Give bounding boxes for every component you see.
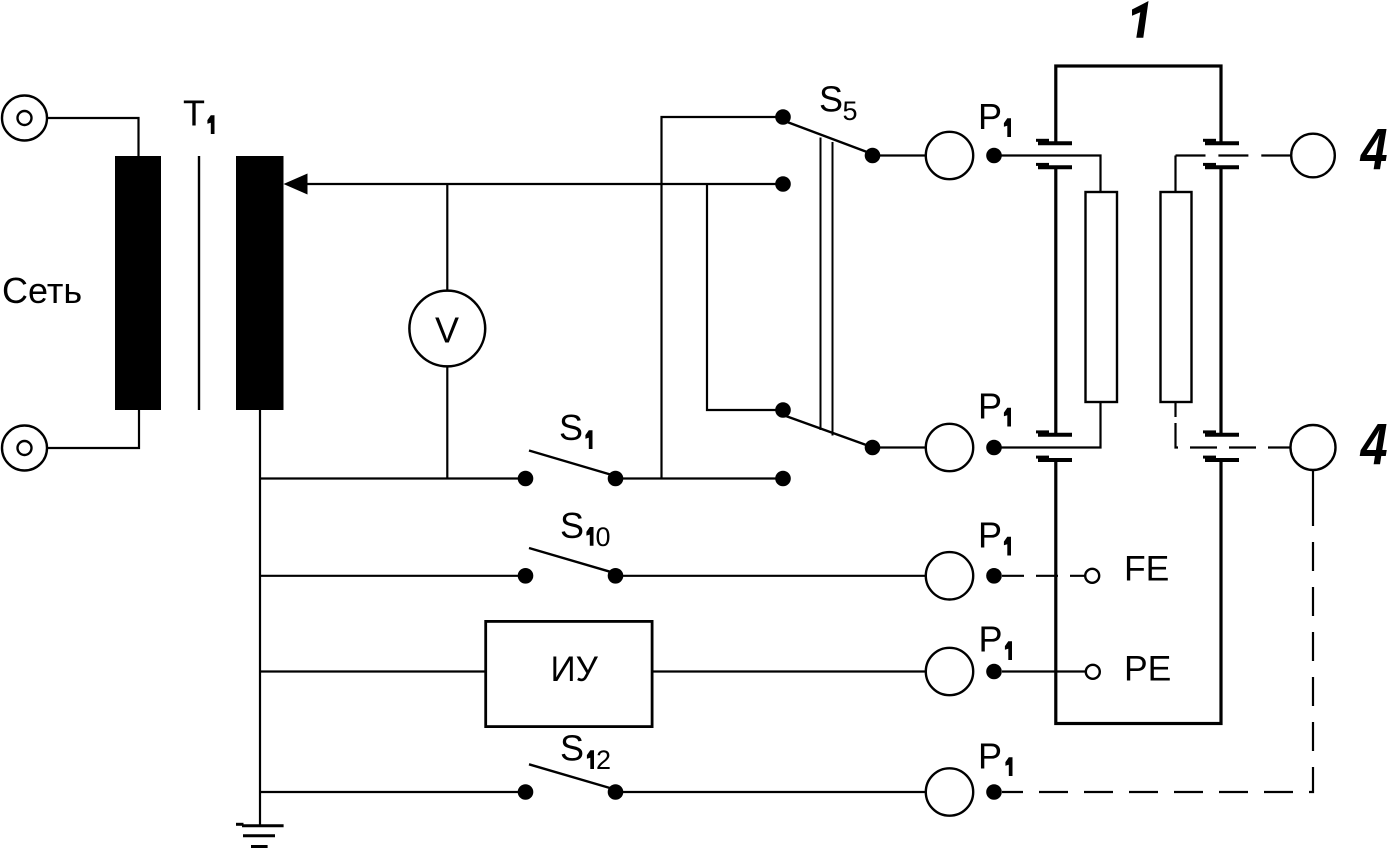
wire bus to S10 <box>260 575 526 577</box>
svg-text:P: P <box>978 386 1002 427</box>
probe P1 row FE <box>926 515 1011 600</box>
svg-text:P: P <box>979 619 1003 660</box>
terminal X1 top-left <box>2 96 47 141</box>
wire IU to probe P1 <box>652 670 926 672</box>
svg-text:T: T <box>183 93 205 134</box>
wire to PE contact <box>1002 670 1086 672</box>
connector plates left row1 <box>1036 140 1072 167</box>
probe P1 row1 <box>926 96 1011 179</box>
dashed wire R right to terminal 4 bottom <box>1176 423 1291 448</box>
transformer T1 secondary winding bar <box>236 156 284 410</box>
terminal 4 bottom <box>1291 413 1388 477</box>
transformer T1 primary winding bar <box>115 156 161 410</box>
node contact row PE <box>986 664 1002 680</box>
svg-text:S: S <box>560 728 584 769</box>
wire bus to IU box <box>260 670 486 672</box>
svg-text:5: 5 <box>843 96 858 126</box>
svg-text:Сеть: Сеть <box>2 270 82 311</box>
wire P1 row1 into load R left <box>994 156 1101 193</box>
wire R right top riser <box>1174 156 1176 193</box>
svg-text:4: 4 <box>1360 413 1388 477</box>
wire X1 to T1 primary top <box>47 118 139 157</box>
wire X2 to T1 primary bottom <box>47 409 139 448</box>
terminal X2 bottom-left <box>2 426 47 471</box>
label S12 <box>560 728 611 776</box>
wire riser arrow line to S5 contact B1 <box>707 184 783 410</box>
label S1 <box>559 407 593 449</box>
connector plates right row1 <box>1203 140 1239 167</box>
svg-text:2: 2 <box>596 745 611 775</box>
wire S5 pole1 to probe P1 <box>873 154 927 156</box>
wire T1 secondary bottom to bus <box>259 409 261 479</box>
transformer T1 core line <box>198 156 200 410</box>
switch S5 pole 2 <box>775 402 880 486</box>
probe P1 row S12 <box>926 735 1013 815</box>
node contact row FE <box>986 568 1002 584</box>
appliance under test box 1 outline <box>1046 66 1231 724</box>
probe P1 row PE <box>926 619 1012 696</box>
wire S10 to probe P1 <box>616 575 927 577</box>
node contact row2 <box>986 440 1002 456</box>
dashed wire terminal 4 to S12 row <box>1002 497 1313 792</box>
terminal FE <box>1085 549 1169 589</box>
svg-text:S: S <box>559 407 583 448</box>
svg-text:0: 0 <box>596 522 611 552</box>
svg-text:V: V <box>435 310 459 351</box>
wire riser S1 row to S5 contact A1 <box>662 117 784 479</box>
node contact row S12 <box>986 784 1002 800</box>
svg-text:P: P <box>978 515 1002 556</box>
load element R right <box>1161 192 1192 402</box>
load element R left <box>1086 192 1118 402</box>
switch S1 <box>518 451 624 487</box>
voltmeter V wire bottom <box>446 366 448 478</box>
wire R right bottom stub <box>1174 402 1176 417</box>
wire bus to S12 <box>260 791 526 793</box>
svg-text:4: 4 <box>1360 118 1388 182</box>
label T1 <box>183 93 215 134</box>
switch S5 linkage lines <box>821 138 833 436</box>
label S5 <box>819 79 858 126</box>
wire tap arrow into T1 secondary <box>284 174 784 195</box>
measuring unit IU box <box>486 621 652 726</box>
switch S12 <box>518 764 624 800</box>
switch S10 <box>518 548 624 584</box>
svg-text:S: S <box>819 79 843 120</box>
svg-text:P: P <box>978 96 1002 137</box>
dashed wire R right to terminal 4 top <box>1176 154 1292 156</box>
voltmeter V wire top <box>446 184 448 291</box>
wire S12 to probe P1 <box>616 791 927 793</box>
svg-text:S: S <box>560 505 584 546</box>
connector plates left row2 <box>1036 432 1072 460</box>
label 1 <box>1132 1 1149 38</box>
ground symbol <box>236 824 284 846</box>
connector plates right row2 <box>1203 432 1239 460</box>
label S10 <box>560 505 611 552</box>
terminal 4 top <box>1291 118 1387 182</box>
svg-text:ИУ: ИУ <box>551 650 599 689</box>
voltmeter V <box>409 291 485 367</box>
svg-text:PE: PE <box>1124 648 1171 688</box>
dashed wire to FE contact <box>1002 575 1085 577</box>
wire R left bottom to P1 row2 <box>994 402 1101 448</box>
svg-text:FE: FE <box>1124 549 1169 589</box>
wire bus to S1 <box>260 477 526 479</box>
terminal PE <box>1086 648 1172 688</box>
wire terminal 4 bottom stub <box>1312 470 1314 497</box>
wire S1 to S5 contact B2 <box>616 477 784 479</box>
probe P1 row2 <box>926 386 1011 472</box>
svg-text:P: P <box>978 735 1002 776</box>
wire ground bus vertical <box>259 479 261 826</box>
node contact row1 <box>986 148 1002 164</box>
wire S5 pole2 to probe P1 <box>873 446 927 448</box>
switch S5 pole 1 <box>775 109 880 192</box>
